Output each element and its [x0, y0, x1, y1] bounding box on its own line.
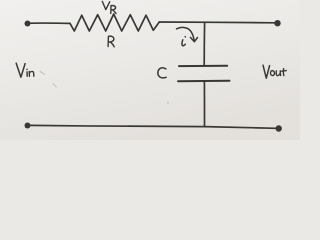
label R (below resistor): [108, 36, 114, 47]
resistor R: [70, 14, 159, 31]
wire top-left: [30, 22, 70, 24]
wire capacitor top lead: [203, 23, 205, 66]
label i (current): [182, 37, 185, 46]
capacitor C top plate: [179, 65, 227, 67]
label Vout : o: [270, 71, 274, 76]
current arrow i: [177, 27, 195, 41]
capacitor C bottom plate: [178, 80, 230, 83]
label VR : subscript R: [111, 6, 116, 14]
wire bottom rail: [31, 125, 277, 128]
node Vin terminal dot (top-left): [25, 21, 31, 27]
label VR : V: [102, 1, 109, 9]
label Vin : i: [26, 69, 28, 76]
label C: [158, 68, 166, 78]
paper speck: [167, 102, 169, 104]
wire capacitor bottom lead: [203, 81, 205, 126]
label Vout : u: [276, 71, 280, 76]
ground terminal dot (bottom-left): [25, 123, 31, 129]
label Vout : t: [282, 69, 287, 76]
label Vin : V: [16, 63, 25, 77]
pencil smudge near Vin: [40, 71, 45, 74]
label Vout : V: [263, 65, 270, 78]
wire top-right: [159, 21, 274, 24]
ground terminal dot (bottom-right): [276, 125, 282, 131]
node Vout terminal dot (top-right): [274, 20, 280, 26]
label Vin : n: [29, 71, 34, 76]
